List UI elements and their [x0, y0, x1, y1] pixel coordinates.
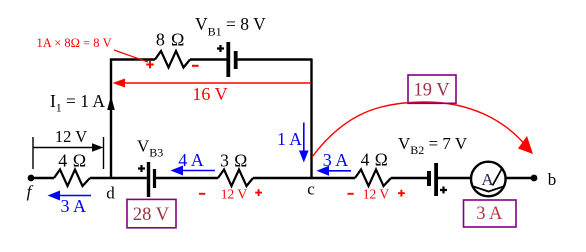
- node b dot: [531, 175, 538, 182]
- svg-text:4 Ω: 4 Ω: [361, 150, 389, 170]
- wire resistor4 to node d to battery B3: [90, 177, 147, 179]
- battery V_B1 short plate: [234, 51, 238, 69]
- svg-text:12 V: 12 V: [363, 187, 390, 202]
- svg-text:19 V: 19 V: [414, 81, 451, 101]
- measure 12V left tick: [32, 137, 34, 169]
- svg-text:12 V: 12 V: [55, 127, 87, 146]
- svg-text:16 V: 16 V: [192, 84, 227, 104]
- red 16V arrowhead left: [113, 79, 126, 88]
- ammeter circle: [471, 162, 506, 197]
- box 28 V: [127, 199, 176, 227]
- svg-text:d: d: [106, 184, 115, 203]
- node f dot: [28, 175, 35, 182]
- resistor R_8ohm zigzag: [155, 51, 190, 68]
- red minus under 3ohm: [199, 193, 205, 195]
- red plus under 4ohm right: [398, 190, 405, 197]
- svg-text:3 A: 3 A: [61, 196, 87, 216]
- blue 4A arrow: [171, 166, 216, 176]
- red minus at resistor 8ohm right: [192, 65, 199, 67]
- blue 3A arrow right of c: [317, 166, 352, 176]
- wire right vertical c to top corner: [310, 59, 312, 180]
- svg-text:VB1 = 8 V: VB1 = 8 V: [195, 14, 266, 39]
- wire top horizontal left segment: [110, 58, 155, 60]
- svg-text:8 Ω: 8 Ω: [156, 30, 185, 50]
- resistor 3ohm zigzag: [218, 170, 253, 187]
- wire resistor 3ohm to node c and on to resistor 4ohm right: [253, 177, 355, 179]
- battery V_B3 long plate: [147, 162, 150, 197]
- battery V_B1 long plate: [226, 42, 230, 77]
- svg-text:4 Ω: 4 Ω: [58, 151, 86, 171]
- svg-text:1 A: 1 A: [277, 129, 302, 149]
- resistor 4ohm right zigzag: [355, 170, 391, 187]
- battery V_B2 long plate: [434, 163, 438, 196]
- wire battery B3 to resistor 3ohm: [156, 177, 218, 179]
- wire ammeter to node b: [506, 177, 534, 179]
- ammeter needle: [493, 168, 503, 186]
- red 16V arrow line: [116, 82, 311, 84]
- battery V_B1 plus sign: [217, 45, 224, 52]
- red curved 19V arrow: [312, 102, 527, 157]
- svg-text:3 A: 3 A: [323, 150, 349, 170]
- svg-text:3 Ω: 3 Ω: [220, 151, 248, 171]
- svg-text:28 V: 28 V: [133, 205, 170, 225]
- red minus under 4ohm right: [348, 193, 354, 195]
- svg-text:A: A: [481, 170, 494, 189]
- svg-text:I1 = 1 A: I1 = 1 A: [50, 91, 105, 115]
- box 19 V: [408, 75, 456, 103]
- wire f to resistor 4ohm left: [31, 177, 54, 179]
- measure 12V horizontal arrow: [33, 147, 97, 149]
- wire resistor 4ohm right to battery B2: [391, 177, 427, 179]
- wire left vertical d to top corner: [110, 59, 112, 180]
- blue 3A arrow under f-d: [48, 191, 92, 201]
- wire top between resistor and battery B1: [190, 58, 227, 60]
- wire battery B2 to ammeter: [438, 177, 471, 179]
- measure 12V right tick: [103, 137, 105, 169]
- svg-text:b: b: [548, 170, 557, 189]
- ammeter bottom chord: [474, 187, 504, 192]
- battery V_B3 short plate: [153, 169, 156, 188]
- svg-text:VB2 = 7 V: VB2 = 7 V: [398, 134, 468, 157]
- blue 1A arrow down at c: [299, 123, 309, 163]
- svg-text:f: f: [27, 182, 34, 201]
- red leader line from annotation to plus: [114, 50, 148, 62]
- box 3 A: [464, 200, 517, 227]
- battery V_B2 plus sign: [440, 187, 447, 194]
- arrowhead I1 up on left vertical wire: [107, 96, 115, 110]
- red plus at resistor 8ohm left: [146, 61, 153, 68]
- svg-text:3 A: 3 A: [476, 204, 503, 224]
- svg-text:VB3: VB3: [137, 137, 163, 160]
- measure 12V arrowhead right: [92, 143, 104, 152]
- wire top right segment: [238, 58, 312, 60]
- red plus under 3ohm: [255, 189, 262, 196]
- red curved arrowhead: [518, 136, 533, 154]
- battery V_B2 short plate: [427, 171, 431, 186]
- svg-text:1A × 8Ω = 8 V: 1A × 8Ω = 8 V: [37, 36, 112, 50]
- svg-text:12 V: 12 V: [221, 187, 248, 202]
- resistor 4ohm left zigzag: [54, 170, 90, 187]
- svg-text:c: c: [307, 180, 315, 199]
- svg-text:4 A: 4 A: [178, 150, 204, 170]
- battery V_B3 plus sign: [138, 165, 145, 172]
